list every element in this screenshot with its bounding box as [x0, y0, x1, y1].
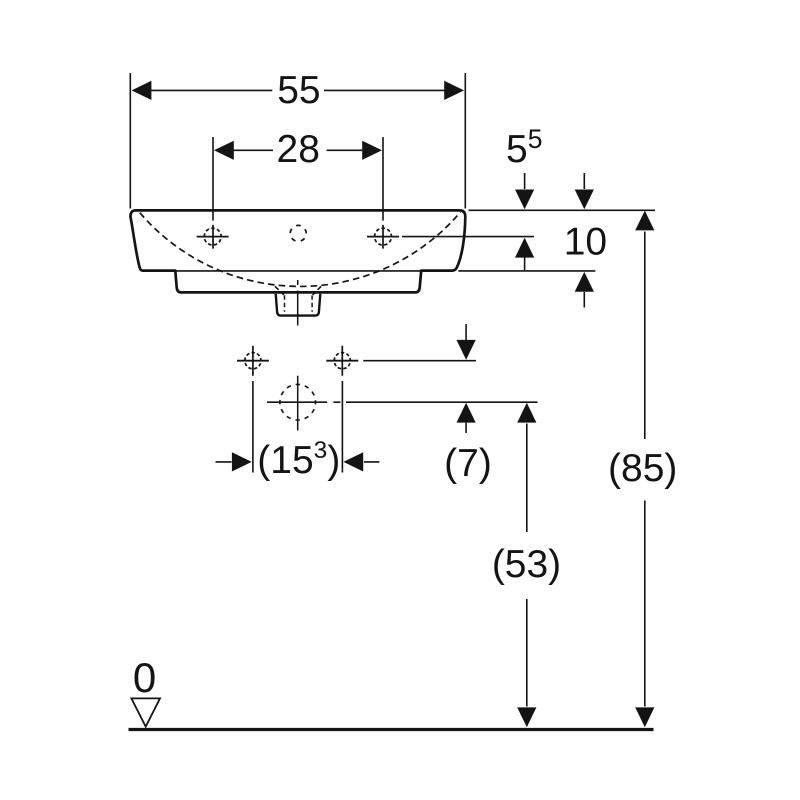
- svg-text:(7): (7): [444, 442, 492, 485]
- svg-text:28: 28: [277, 128, 320, 171]
- svg-text:55: 55: [277, 69, 320, 112]
- svg-text:(53): (53): [492, 543, 561, 586]
- svg-text:10: 10: [564, 221, 607, 264]
- svg-text:(153): (153): [257, 437, 340, 482]
- svg-text:0: 0: [133, 654, 156, 701]
- svg-text:(85): (85): [608, 447, 677, 490]
